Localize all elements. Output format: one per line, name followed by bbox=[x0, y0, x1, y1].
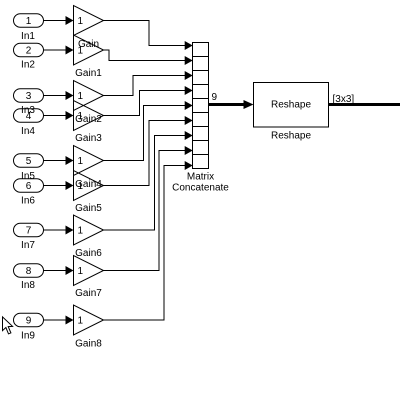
svg-text:In9: In9 bbox=[21, 331, 35, 342]
svg-text:In3: In3 bbox=[21, 105, 35, 116]
svg-text:3: 3 bbox=[26, 91, 32, 102]
svg-text:Gain1: Gain1 bbox=[75, 68, 102, 79]
svg-text:8: 8 bbox=[26, 266, 32, 277]
svg-text:Gain4: Gain4 bbox=[75, 179, 102, 190]
svg-text:1: 1 bbox=[78, 91, 84, 102]
svg-text:In5: In5 bbox=[21, 171, 35, 182]
svg-text:7: 7 bbox=[26, 226, 32, 237]
svg-text:2: 2 bbox=[26, 46, 32, 57]
svg-text:In2: In2 bbox=[21, 60, 35, 71]
svg-text:Gain: Gain bbox=[78, 39, 99, 50]
svg-text:9: 9 bbox=[26, 316, 32, 327]
svg-text:1: 1 bbox=[78, 316, 84, 327]
svg-text:1: 1 bbox=[26, 16, 32, 27]
svg-text:Gain5: Gain5 bbox=[75, 203, 102, 214]
svg-text:Gain6: Gain6 bbox=[75, 248, 102, 259]
svg-text:1: 1 bbox=[78, 156, 84, 167]
svg-text:1: 1 bbox=[78, 16, 84, 27]
svg-text:Gain8: Gain8 bbox=[75, 339, 102, 350]
svg-text:Reshape: Reshape bbox=[271, 100, 311, 111]
svg-text:Gain7: Gain7 bbox=[75, 288, 102, 299]
svg-text:In7: In7 bbox=[21, 240, 35, 251]
svg-text:6: 6 bbox=[26, 181, 32, 192]
svg-text:In1: In1 bbox=[21, 31, 35, 42]
svg-text:In4: In4 bbox=[21, 126, 35, 137]
svg-text:Reshape: Reshape bbox=[271, 131, 311, 142]
svg-text:1: 1 bbox=[78, 226, 84, 237]
svg-text:Gain3: Gain3 bbox=[75, 133, 102, 144]
svg-text:5: 5 bbox=[26, 156, 32, 167]
svg-text:In8: In8 bbox=[21, 280, 35, 291]
svg-text:[3x3]: [3x3] bbox=[333, 94, 355, 105]
svg-text:9: 9 bbox=[212, 92, 218, 103]
svg-text:Gain2: Gain2 bbox=[75, 114, 102, 125]
svg-text:In6: In6 bbox=[21, 196, 35, 207]
svg-text:1: 1 bbox=[78, 266, 84, 277]
svg-text:Matrix: Matrix bbox=[187, 172, 214, 183]
svg-text:Concatenate: Concatenate bbox=[172, 183, 229, 194]
